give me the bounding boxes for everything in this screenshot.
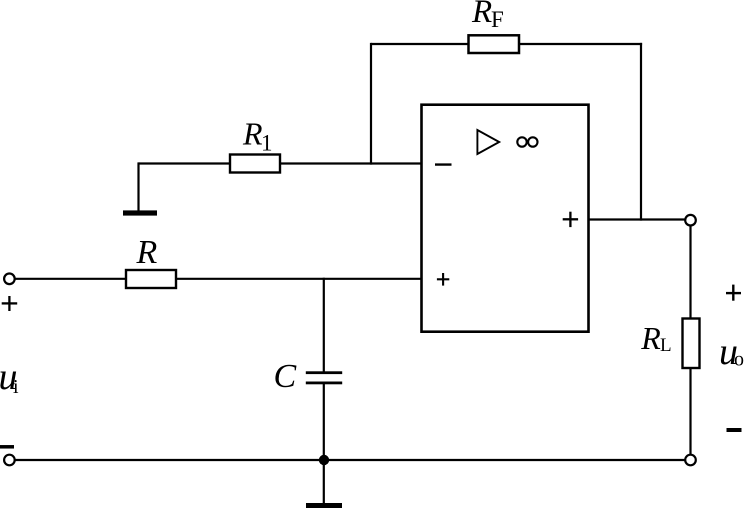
op-amp infinity symbol — [517, 137, 526, 146]
label minus (input) — [0, 445, 14, 449]
svg-text:i: i — [13, 376, 19, 398]
wire RF left horizontal — [371, 43, 469, 45]
wire bottom horizontal — [15, 459, 685, 461]
ground (bottom) — [306, 503, 342, 508]
svg-text:R: R — [136, 234, 158, 271]
op-amp non-inverting input plus — [437, 278, 449, 280]
wire input left horizontal — [15, 278, 127, 280]
wire R1 left horizontal — [139, 162, 232, 164]
node junction dot — [319, 455, 329, 465]
resistor RF body — [469, 35, 520, 53]
resistor R1 body — [230, 155, 280, 173]
svg-text:1: 1 — [261, 130, 273, 155]
capacitor C plates — [306, 371, 342, 374]
svg-text:C: C — [274, 358, 297, 395]
op-amp U1 box — [422, 105, 589, 332]
wire R1 right horizontal — [279, 162, 422, 164]
label + (output) — [726, 292, 741, 294]
output terminal - — [685, 455, 696, 466]
op-amp inverting input minus — [435, 163, 452, 165]
svg-text:R: R — [242, 115, 263, 151]
svg-text:o: o — [734, 349, 744, 371]
op-amp output plus — [563, 218, 578, 220]
wire output horizontal — [589, 218, 686, 220]
label + (input) — [2, 302, 18, 304]
input terminal - — [4, 455, 15, 466]
wire input right horizontal — [175, 278, 422, 280]
wire ground vertical — [323, 460, 325, 504]
output terminal + — [685, 215, 696, 226]
wire capacitor top vertical — [323, 278, 325, 372]
wire capacitor bottom vertical — [323, 384, 325, 460]
wire RL bottom vertical — [689, 368, 691, 455]
wire RL top vertical — [689, 226, 691, 319]
wire ground stub vertical — [137, 162, 139, 211]
op-amp triangle symbol — [477, 130, 499, 154]
resistor RL body — [683, 319, 700, 369]
svg-text:F: F — [491, 7, 504, 32]
resistor R body — [126, 270, 176, 288]
svg-text:R: R — [640, 320, 661, 356]
ground (R1) — [123, 210, 157, 215]
wire feedback right vertical — [640, 43, 642, 221]
label minus (output) — [727, 428, 742, 432]
svg-text:L: L — [660, 335, 672, 356]
wire feedback left vertical — [370, 43, 372, 165]
wire RF right horizontal — [518, 43, 642, 45]
input terminal + — [4, 274, 15, 285]
svg-text:R: R — [471, 0, 492, 30]
